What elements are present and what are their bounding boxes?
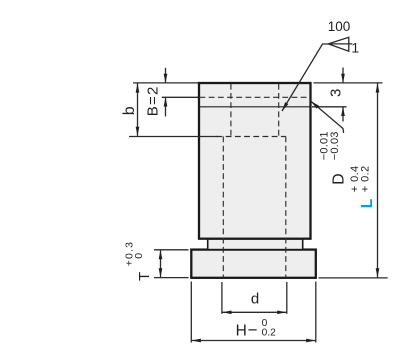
svg-text:3: 3	[328, 89, 345, 97]
svg-text:d: d	[251, 291, 259, 308]
svg-text:B=2: B=2	[145, 85, 162, 116]
ext line: L bottom	[319, 277, 388, 279]
finish mark leader	[282, 44, 328, 111]
dim b line	[137, 83, 139, 135]
dim d line	[222, 311, 286, 313]
ext line: d left	[221, 282, 223, 314]
dim L line	[377, 83, 379, 277]
svg-text:100: 100	[328, 19, 351, 34]
svg-text:0: 0	[133, 253, 145, 259]
dim H line	[192, 340, 316, 342]
hidden line: narrow hole right	[278, 84, 280, 137]
ext line: 3 bottom	[312, 106, 347, 108]
svg-text:L: L	[359, 199, 376, 208]
finish mark triangle	[328, 37, 349, 51]
part flange (base)	[191, 250, 315, 278]
hidden line: wide hole left	[222, 137, 224, 278]
dim B arrows	[165, 68, 167, 83]
part body	[199, 83, 311, 239]
svg-text:−: −	[248, 320, 258, 339]
ext line: H right	[315, 282, 317, 343]
ext line: d right	[286, 282, 288, 314]
ext line: H left	[190, 282, 192, 343]
svg-text:0.2: 0.2	[262, 327, 276, 338]
svg-text:b: b	[121, 106, 138, 115]
hidden line: wide hole right	[285, 137, 287, 278]
svg-text:H: H	[236, 322, 247, 339]
leader D	[311, 101, 344, 133]
hidden line: hole shoulder	[217, 136, 286, 138]
dim 3 arrows	[342, 68, 344, 83]
part neck	[208, 239, 303, 250]
dim T line	[160, 250, 162, 277]
ext line: B bottom	[162, 96, 198, 98]
hidden line: B groove	[200, 96, 311, 98]
svg-text:D: D	[330, 173, 347, 184]
ext line: T top	[154, 249, 189, 251]
body internal solid line (3 band)	[199, 106, 311, 108]
hidden line: narrow hole left	[230, 84, 232, 137]
svg-text:1: 1	[351, 39, 359, 55]
svg-text:T: T	[136, 272, 153, 281]
ext line: T bottom	[154, 277, 189, 279]
svg-text:−0.03: −0.03	[329, 131, 341, 160]
finish mark middle line	[328, 43, 352, 45]
ext line: top right	[314, 82, 383, 84]
ext line: top left	[133, 82, 198, 84]
svg-text:+ 0.2: + 0.2	[359, 165, 371, 192]
ext line: b bottom	[129, 136, 218, 138]
